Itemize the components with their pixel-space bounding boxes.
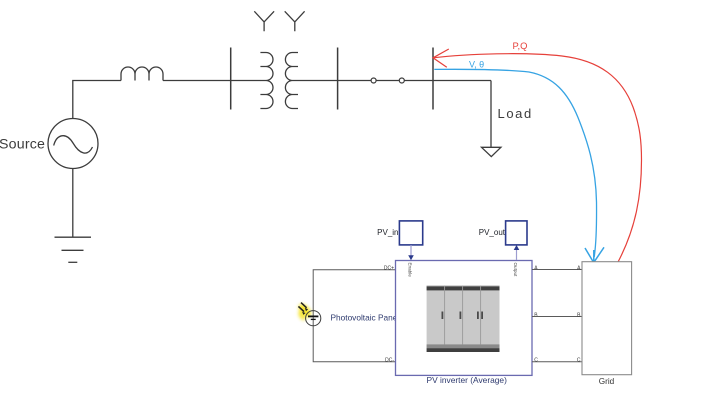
svg-text:Output: Output bbox=[513, 263, 518, 278]
PV_in connector arrow bbox=[408, 245, 414, 260]
wire between breaker contacts bbox=[376, 80, 399, 82]
svg-text:P,Q: P,Q bbox=[513, 40, 528, 51]
grid label bbox=[599, 377, 615, 386]
svg-text:Photovoltaic Panel1: Photovoltaic Panel1 bbox=[331, 312, 405, 322]
breaker contact 2 bbox=[399, 78, 404, 83]
PV inverter label bbox=[427, 375, 508, 385]
svg-text:PV inverter (Average): PV inverter (Average) bbox=[427, 375, 508, 385]
photovoltaic panel label bbox=[331, 312, 405, 322]
svg-text:Grid: Grid bbox=[599, 377, 615, 386]
signal P,Q red curve bbox=[433, 54, 642, 263]
P,Q label bbox=[513, 40, 528, 51]
pin label DC+ bbox=[384, 265, 394, 271]
signal V,theta blue curve bbox=[434, 69, 596, 257]
load arrow terminal bbox=[482, 147, 501, 156]
PV_in label bbox=[377, 228, 398, 237]
pin label Output rotated bbox=[513, 263, 518, 278]
PV_out label bbox=[479, 228, 506, 237]
pin label C left bbox=[534, 358, 538, 364]
PV panel plates bbox=[308, 316, 318, 319]
transformer T1 primary winding bbox=[260, 53, 273, 109]
wire source-bottom to ground bbox=[72, 169, 74, 238]
inductor L1 bbox=[121, 67, 163, 81]
svg-text:C: C bbox=[577, 358, 581, 364]
PV inverter cabinet image bbox=[427, 286, 500, 352]
PV_out port block bbox=[506, 221, 527, 245]
PV light ray 1 bbox=[301, 303, 308, 312]
load label bbox=[498, 106, 533, 121]
PV_out connector arrow bbox=[514, 245, 520, 260]
AC source V1 bbox=[48, 119, 98, 169]
wire down to load bbox=[490, 81, 492, 148]
svg-text:PV_out: PV_out bbox=[479, 228, 506, 237]
transformer T1 secondary winding bbox=[285, 53, 298, 109]
wire phase A bbox=[532, 269, 582, 271]
svg-text:Load: Load bbox=[498, 106, 533, 121]
red arrowhead at busbar bbox=[433, 49, 449, 67]
wire source-top to rail bbox=[73, 81, 121, 119]
ground bbox=[55, 237, 92, 262]
pin label DC- bbox=[385, 357, 394, 363]
source label bbox=[0, 137, 45, 153]
V,theta label bbox=[469, 59, 484, 69]
PV light ray 2 bbox=[298, 306, 305, 315]
wye symbol Y1 bbox=[254, 11, 274, 31]
pin label B right bbox=[577, 312, 581, 318]
svg-text:DC-: DC- bbox=[385, 357, 394, 363]
wire transformer to breaker bbox=[298, 80, 371, 82]
PV inverter block U1 bbox=[396, 261, 533, 376]
svg-text:C: C bbox=[534, 358, 538, 364]
blue arrowhead at grid bbox=[585, 247, 604, 262]
wire phase C bbox=[532, 361, 582, 363]
PV loop wire DC- bbox=[313, 318, 395, 362]
wye symbol Y2 bbox=[285, 11, 305, 31]
grid block bbox=[582, 262, 632, 375]
pin label B left bbox=[534, 312, 538, 318]
pin label A left bbox=[534, 265, 538, 271]
svg-text:PV_in: PV_in bbox=[377, 228, 398, 237]
PV panel source PV1 bbox=[306, 311, 321, 326]
pin label C right bbox=[577, 358, 581, 364]
PV panel sun glow bbox=[296, 302, 313, 320]
busbar B3 bbox=[432, 48, 434, 110]
breaker contact 1 bbox=[371, 78, 376, 83]
busbar B1 bbox=[230, 48, 232, 110]
PV loop wire DC+ bbox=[313, 270, 395, 318]
PV_in port block bbox=[399, 221, 422, 245]
busbar B2 bbox=[337, 48, 339, 110]
svg-text:V, θ: V, θ bbox=[469, 59, 484, 69]
pin label A right bbox=[577, 265, 581, 271]
svg-text:DC+: DC+ bbox=[384, 265, 394, 271]
wire phase B bbox=[532, 316, 582, 318]
wire inductor to transformer bbox=[163, 80, 261, 82]
pin label Enable rotated bbox=[408, 263, 413, 278]
svg-text:Source: Source bbox=[0, 137, 45, 153]
wire breaker to load corner bbox=[404, 80, 491, 82]
svg-text:Enable: Enable bbox=[408, 263, 413, 278]
